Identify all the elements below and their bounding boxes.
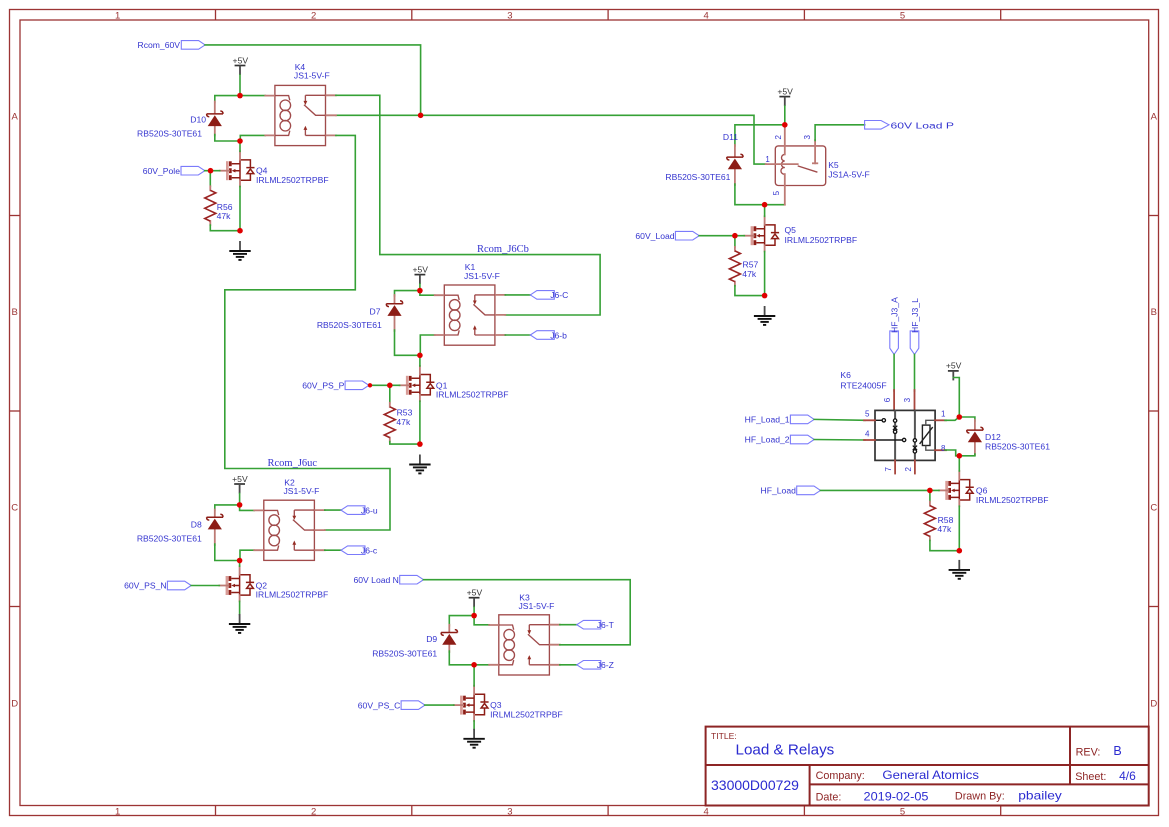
svg-text:60V_PS_P: 60V_PS_P (302, 381, 344, 391)
wire K4 NO contact to Rcom_J6uc (225, 135, 390, 530)
wire HF_Load_1 to pin 5 (814, 418, 865, 421)
svg-text:60V Load N: 60V Load N (354, 575, 399, 585)
wire relay coil- to junction (474, 664, 489, 666)
wire 60V_PS_N to Q2 gate (191, 585, 219, 587)
wire Rcom_60V horizontal K4 to K5 (336, 115, 766, 164)
relay K5 coil (781, 154, 785, 174)
relay K6 pin 6 internal line (894, 410, 896, 460)
frame column numbers bottom (115, 807, 905, 818)
relay K5 pin 2 (784, 128, 786, 155)
net flag J6-c (341, 546, 365, 555)
wire junction to relay coil+ (240, 95, 265, 97)
wire junction to relay coil+ (240, 505, 255, 511)
net flag HF_Load (797, 486, 821, 495)
svg-text:60V_Load: 60V_Load (635, 231, 674, 241)
svg-text:5: 5 (865, 409, 870, 418)
wire Q6 source to ground junction (958, 506, 960, 551)
+5V supply K6 (946, 361, 962, 381)
node K3 coil- (471, 662, 477, 668)
svg-text:2: 2 (311, 807, 316, 818)
node K1 ground (417, 441, 423, 447)
wire R56 bottom to ground junction (210, 225, 240, 231)
net flag HF_Load_1 (790, 415, 814, 424)
wire junction to D12 top (959, 417, 975, 421)
diode D8 leads (214, 510, 216, 546)
svg-text:RB520S-30TE61: RB520S-30TE61 (137, 129, 202, 139)
wire 60V_PS_P to Q1 gate (369, 384, 400, 386)
svg-text:RTE24005F: RTE24005F (840, 381, 886, 391)
node Q5 gate / R57 (732, 233, 738, 239)
wire gate junction down to R58 (929, 490, 931, 501)
wire K3 coil- junction to Q3 drain (473, 665, 475, 686)
svg-text:5: 5 (900, 11, 905, 22)
wire +5V to junction (473, 607, 475, 615)
net flag 60V_Pole (181, 166, 205, 175)
svg-text:4: 4 (704, 807, 709, 818)
ground K3 (463, 729, 484, 748)
svg-text:RB520S-30TE61: RB520S-30TE61 (137, 534, 202, 544)
relay K6 pin 3 internal line (914, 410, 916, 460)
relay K5 pin 5 (784, 174, 786, 205)
node K4 ground (237, 228, 243, 234)
svg-text:IRLML2502TRPBF: IRLML2502TRPBF (785, 235, 858, 245)
svg-text:C: C (11, 502, 18, 513)
relay K2 (254, 500, 325, 560)
svg-text:4/6: 4/6 (1119, 769, 1136, 783)
svg-text:J6-Z: J6-Z (597, 660, 614, 670)
wire HF_J3_A to pin 6 (893, 354, 895, 391)
svg-text:J6-c: J6-c (361, 546, 378, 556)
svg-text:1: 1 (115, 807, 120, 818)
svg-text:Rcom_J6uc: Rcom_J6uc (268, 458, 318, 469)
svg-text:60V_PS_N: 60V_PS_N (124, 581, 167, 591)
diode D10 leads (214, 102, 216, 136)
net flag 60V_PS_P (345, 381, 369, 390)
wire 60V_Pole to Q4 gate (205, 170, 220, 172)
wire junction to D7 top (395, 291, 420, 296)
svg-text:IRLML2502TRPBF: IRLML2502TRPBF (976, 495, 1049, 505)
svg-text:IRLML2502TRPBF: IRLML2502TRPBF (490, 709, 563, 719)
+5V supply K4 (233, 55, 249, 75)
node K6 ground (957, 548, 963, 554)
node K4 coil+ (237, 93, 243, 99)
wire gate junction down to R53 (389, 385, 391, 403)
relay K5 box (775, 146, 825, 186)
svg-text:IRLML2502TRPBF: IRLML2502TRPBF (256, 175, 329, 185)
resistor R58 (924, 502, 935, 541)
net flag HF_J3_A (890, 331, 899, 355)
svg-text:HF_J3_A: HF_J3_A (889, 297, 899, 333)
net flag J6-u (341, 506, 365, 515)
wire D10 bottom to junction (215, 135, 240, 142)
node K1 coil- (417, 353, 423, 359)
svg-text:5: 5 (900, 807, 905, 818)
node K6 pin1/+5V/D12 (957, 414, 963, 420)
svg-text:D7: D7 (370, 306, 381, 316)
+5V supply K1 (412, 264, 428, 284)
net flag HF_J3_L (910, 331, 919, 355)
ground K1 (409, 455, 430, 474)
+5V supply K5 (777, 86, 793, 106)
wire R57 bottom to ground junction (735, 286, 765, 296)
wire HF_Load to Q6 gate (821, 489, 940, 491)
wire D7 bottom to junction (395, 330, 420, 355)
relay K6 contact 1 (pins 5/6) (875, 419, 882, 421)
wire D8 bottom to junction (215, 544, 240, 561)
node Q1 gate / R53 (387, 383, 393, 389)
svg-text:D: D (1150, 698, 1157, 709)
svg-text:B: B (1113, 744, 1121, 758)
svg-text:60V_PS_C: 60V_PS_C (358, 700, 401, 710)
wire junction to Q6 drain (958, 456, 960, 471)
svg-text:D9: D9 (426, 634, 437, 644)
node K5 coil+ (782, 122, 788, 128)
wire relay coil- to junction (420, 335, 434, 355)
svg-text:REV:: REV: (1076, 746, 1101, 758)
net flag J6-C (530, 291, 554, 300)
svg-text:Drawn By:: Drawn By: (955, 791, 1005, 803)
svg-text:RB520S-30TE61: RB520S-30TE61 (317, 320, 382, 330)
resistor R56 (205, 186, 216, 225)
+5V supply K3 (467, 588, 483, 608)
svg-text:A: A (12, 111, 19, 122)
node K5 ground (762, 293, 768, 299)
svg-text:D: D (11, 698, 18, 709)
wire 60V_PS_C to Q3 gate (425, 704, 454, 706)
wire pin 8 to junction (945, 450, 959, 456)
svg-text:5: 5 (772, 190, 781, 195)
svg-text:60V Load P: 60V Load P (891, 120, 955, 130)
svg-text:3: 3 (903, 397, 912, 402)
svg-text:Load & Relays: Load & Relays (736, 742, 835, 759)
ground K5 (754, 306, 775, 325)
node flag tip dot (368, 383, 372, 387)
diode D9 leads (448, 625, 450, 652)
wire K4 NC contact to Rcom_J6Cb (336, 95, 600, 315)
node K3 coil+ (471, 613, 477, 619)
wire relay coil- to junction (240, 135, 265, 141)
net flag Rcom_60V (181, 41, 205, 50)
net flag 60V_PS_N (167, 581, 191, 590)
svg-text:IRLML2502TRPBF: IRLML2502TRPBF (256, 590, 329, 600)
wire Q5 source to ground junction (764, 252, 766, 296)
transistor Q6 (939, 471, 974, 506)
resistor R57 (729, 247, 740, 286)
wire 60V_Load to Q5 gate (699, 235, 744, 237)
node K2 coil+ (237, 502, 243, 508)
resistor R53 (384, 403, 395, 442)
node K6 pin8/D12/Q6 (957, 453, 963, 459)
svg-text:General Atomics: General Atomics (882, 768, 979, 782)
relay K4 (265, 85, 336, 145)
pin stub 7 (894, 460, 896, 473)
svg-text:47k: 47k (937, 524, 952, 534)
transistor Q2 (219, 566, 254, 601)
relay K6 box (875, 410, 935, 460)
wire R58 bottom to ground junction (930, 540, 959, 550)
wire 60V Load N to K3 common (424, 580, 631, 645)
relay K1 (435, 285, 506, 345)
svg-text:2: 2 (904, 467, 913, 472)
wire R53 bottom to ground junction (390, 442, 420, 445)
svg-text:33000D00729: 33000D00729 (711, 777, 799, 793)
node Q6 gate / R58 (927, 488, 933, 494)
svg-text:3: 3 (507, 807, 512, 818)
wire K2 coil- junction to Q2 drain (239, 561, 241, 567)
wire junction to D10 top (215, 96, 240, 103)
wire junction to relay coil+ (474, 616, 489, 625)
ground K4 (229, 241, 250, 260)
svg-text:47k: 47k (396, 417, 411, 427)
diode D7 leads (394, 295, 396, 331)
svg-text:4: 4 (865, 430, 870, 439)
diode D12 (967, 427, 983, 442)
svg-text:8: 8 (941, 444, 946, 453)
diode D12 leads (974, 420, 976, 455)
svg-text:4: 4 (704, 11, 709, 22)
wire junction to relay coil+ (420, 291, 435, 296)
wire junction to D8 top (215, 505, 240, 511)
svg-text:K5: K5 (828, 160, 839, 170)
svg-text:1: 1 (941, 410, 946, 419)
node K1 coil+ (417, 288, 423, 294)
diode D10 (207, 111, 223, 126)
pin stub 4 (864, 439, 875, 441)
diode D11 leads (734, 145, 736, 185)
svg-text:2: 2 (774, 135, 783, 140)
diode D11 (727, 154, 743, 169)
wire +5V to junction (239, 494, 241, 505)
wire junction to D11 top (735, 125, 785, 146)
wire relay coil- to junction (240, 550, 254, 560)
svg-text:Sheet:: Sheet: (1075, 771, 1106, 783)
relay K5 switch blade (798, 166, 818, 172)
transistor Q3 (454, 686, 489, 721)
svg-text:HF_Load_2: HF_Load_2 (745, 435, 790, 445)
node K4 coil- (237, 138, 243, 144)
net flag 60V Load N (400, 575, 424, 584)
svg-text:pbailey: pbailey (1018, 789, 1062, 803)
wire +5V to junction (239, 75, 241, 96)
svg-text:B: B (1151, 307, 1157, 318)
ground K2 (229, 614, 250, 633)
wire HF_Load_2 to pin 4 (814, 439, 865, 442)
svg-text:D11: D11 (723, 132, 738, 142)
svg-text:1: 1 (765, 155, 770, 164)
svg-text:RB520S-30TE61: RB520S-30TE61 (372, 649, 437, 659)
svg-text:JS1-5V-F: JS1-5V-F (464, 271, 500, 281)
svg-text:JS1A-5V-F: JS1A-5V-F (828, 170, 870, 180)
relay K3 (489, 615, 560, 675)
frame row letters left (11, 111, 18, 709)
svg-text:J6-u: J6-u (361, 505, 378, 515)
svg-text:J6-C: J6-C (550, 290, 568, 300)
wire K5 junction to Q5 drain (764, 205, 766, 217)
diode D8 (207, 514, 223, 529)
wire K2 NO contact to J6-c flag (325, 549, 341, 551)
node Q4 gate / R56 (208, 168, 214, 174)
pin stub 8 (935, 449, 946, 451)
frame row letters right (1150, 111, 1157, 709)
svg-text:Rcom_J6Cb: Rcom_J6Cb (477, 244, 529, 255)
wire +5V to junction (784, 106, 786, 125)
net flag J6-T (577, 620, 601, 629)
svg-text:IRLML2502TRPBF: IRLML2502TRPBF (436, 390, 509, 400)
wire K5 pin3 to 60V Load P (815, 125, 865, 141)
svg-text:Rcom_60V: Rcom_60V (137, 40, 180, 50)
svg-text:JS1-5V-F: JS1-5V-F (294, 71, 330, 81)
net flag HF_Load_2 (790, 435, 814, 444)
wire Q4 source to ground junction (239, 187, 241, 231)
diode D7 (386, 301, 402, 316)
wire K1 NO contact to J6-b flag (505, 334, 530, 336)
svg-text:D10: D10 (190, 115, 206, 125)
ground K6 (949, 560, 970, 579)
wire junction to D9 top (449, 616, 474, 626)
node K2 coil- (237, 558, 243, 564)
wire gate junction down to R57 (734, 236, 736, 247)
pin stub 3 (914, 390, 916, 410)
svg-text:6: 6 (883, 397, 892, 402)
net flag 60V_PS_C (401, 701, 425, 710)
wire +5V hook to pin1 junction (953, 378, 959, 418)
svg-text:47k: 47k (742, 269, 757, 279)
transistor Q5 (744, 216, 779, 251)
wire Q3 source to ground (473, 721, 475, 729)
svg-text:1: 1 (115, 11, 120, 22)
wire gate junction down to R56 (209, 171, 211, 187)
svg-text:3: 3 (507, 11, 512, 22)
net flag 60V Load P (865, 121, 889, 130)
relay K5 pin 3 (814, 140, 816, 163)
wire HF_J3_L to pin 3 (914, 354, 916, 391)
svg-text:JS1-5V-F: JS1-5V-F (519, 601, 555, 611)
svg-text:J6-b: J6-b (550, 330, 567, 340)
junction Rcom_60V at K4 common (418, 113, 424, 119)
pin stub 6 (893, 390, 895, 410)
wire D12 bottom to junction (959, 454, 975, 456)
diode D9 (441, 630, 457, 645)
svg-text:Q6: Q6 (976, 485, 988, 495)
svg-text:RB520S-30TE61: RB520S-30TE61 (985, 441, 1050, 451)
wire K1 NC contact to J6-C flag (505, 294, 530, 296)
svg-text:Date:: Date: (816, 791, 842, 803)
svg-text:7: 7 (884, 467, 893, 472)
wire K3 NC contact to J6-T flag (560, 624, 577, 626)
transistor Q4 (220, 151, 255, 186)
+5V supply K2 (232, 474, 248, 494)
pin stub 2 (914, 460, 916, 473)
svg-text:A: A (1151, 111, 1158, 122)
svg-text:RB520S-30TE61: RB520S-30TE61 (665, 172, 730, 182)
wire D11 bottom to junction (735, 184, 785, 205)
wire Q1 source to ground junction (419, 401, 421, 444)
svg-text:Company:: Company: (816, 770, 865, 782)
svg-text:C: C (1150, 502, 1157, 513)
wire K1 coil- junction to Q1 drain (419, 355, 421, 366)
relay K6 coil (922, 425, 930, 445)
net flag J6-b (530, 331, 554, 340)
wire K4 coil- junction to Q4 drain (239, 141, 241, 151)
svg-text:TITLE:: TITLE: (711, 731, 737, 741)
pin stub 1 (935, 419, 946, 421)
title block (706, 727, 1149, 806)
wire Rcom_60V flag to junction (205, 45, 421, 115)
svg-text:Q5: Q5 (785, 225, 797, 235)
svg-text:2: 2 (311, 11, 316, 22)
wire pin 1 to junction (945, 417, 959, 420)
svg-text:2019-02-05: 2019-02-05 (864, 789, 929, 803)
wire Q2 source to ground (239, 601, 241, 614)
svg-text:HF_Load: HF_Load (761, 486, 797, 496)
wire K3 NO contact to J6-Z flag (560, 664, 577, 666)
svg-text:60V_Pole: 60V_Pole (143, 166, 180, 176)
wire K2 NC contact to J6-u flag (325, 509, 341, 511)
pin stub 5 (864, 419, 875, 421)
svg-text:J6-T: J6-T (597, 620, 615, 630)
net flag 60V_Load (675, 231, 699, 240)
node K5 coil- / Q5 drain (762, 202, 768, 208)
wire D9 bottom to junction (449, 651, 474, 665)
svg-text:3: 3 (803, 135, 812, 140)
svg-text:B: B (12, 307, 18, 318)
transistor Q1 (400, 366, 435, 401)
svg-text:K6: K6 (840, 370, 851, 380)
svg-text:HF_J3_L: HF_J3_L (910, 298, 920, 333)
svg-text:D8: D8 (191, 519, 202, 529)
svg-text:JS1-5V-F: JS1-5V-F (284, 486, 320, 496)
frame column numbers top (115, 11, 905, 22)
net flag J6-Z (577, 661, 601, 670)
relay K6 contact 2 (pins 4/3) (875, 439, 902, 441)
relay K5 pin 1 (766, 163, 798, 165)
svg-text:HF_Load_1: HF_Load_1 (745, 415, 790, 425)
svg-text:47k: 47k (217, 211, 232, 221)
wire +5V to junction (419, 284, 421, 291)
